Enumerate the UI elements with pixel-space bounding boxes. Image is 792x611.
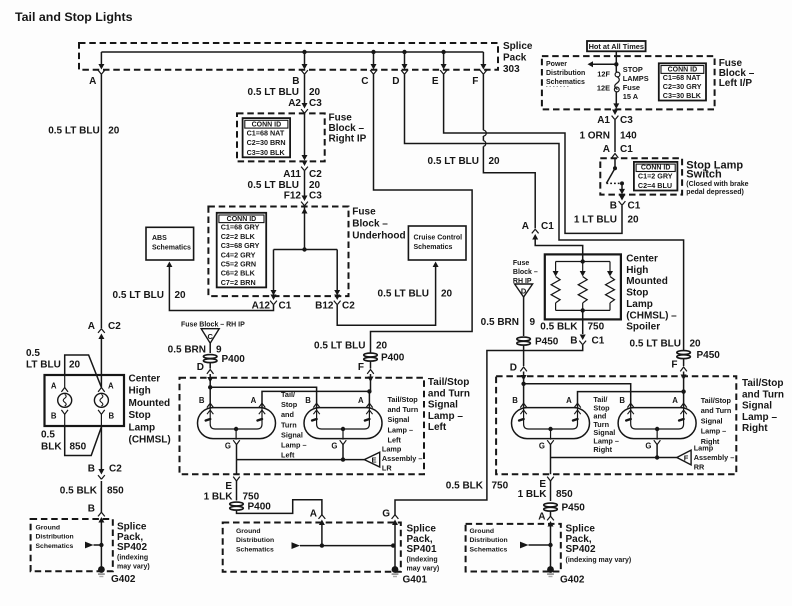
- svg-text:Mounted: Mounted: [129, 398, 171, 409]
- svg-text:E: E: [432, 76, 439, 87]
- ground G401: [392, 566, 399, 576]
- CHMSL spoiler lamp element x=555.6: [551, 262, 560, 311]
- wire A1 to stop lamp switch, 1 ORN 140: [614, 120, 616, 152]
- svg-text:CONN ID: CONN ID: [252, 121, 282, 128]
- svg-text:Signal: Signal: [388, 415, 410, 424]
- svg-text:E: E: [371, 456, 376, 465]
- svg-text:P400: P400: [381, 353, 405, 364]
- svg-text:Signal: Signal: [281, 430, 303, 439]
- junction dot underhood: [302, 247, 306, 251]
- CHMSL bulb right: [94, 393, 108, 407]
- svg-text:Right: Right: [593, 445, 612, 454]
- svg-text:and Turn: and Turn: [742, 389, 784, 400]
- hop over D wire: [483, 141, 485, 147]
- connector symbol A11: [301, 161, 308, 171]
- svg-text:Center: Center: [129, 374, 161, 385]
- connector P450 (lamp right D): [517, 337, 531, 345]
- svg-text:Block –: Block –: [352, 219, 388, 230]
- svg-text:Stop: Stop: [626, 288, 648, 299]
- svg-text:A: A: [51, 382, 57, 391]
- stop lamps fuse symbol: [614, 72, 620, 92]
- svg-text:G: G: [331, 442, 337, 451]
- svg-text:B: B: [292, 76, 299, 87]
- svg-text:Tail/Stop: Tail/Stop: [388, 395, 419, 404]
- svg-text:Fuse: Fuse: [329, 113, 353, 124]
- svg-text:Left I/P: Left I/P: [719, 78, 753, 89]
- lamp left D junction and feeds: [208, 385, 212, 389]
- svg-text:C1: C1: [628, 201, 641, 212]
- splice pack 303 output E arrow: [440, 64, 447, 74]
- svg-text:Block –: Block –: [513, 269, 538, 276]
- splice pack 303 output C wire: [373, 52, 375, 64]
- svg-text:15 A: 15 A: [623, 92, 639, 101]
- ground distribution arrow (SP402 left): [85, 542, 94, 549]
- svg-text:750: 750: [588, 322, 605, 333]
- svg-text:Lamp: Lamp: [626, 299, 653, 310]
- splice pack SP401 box: [223, 523, 401, 572]
- svg-text:Switch: Switch: [686, 169, 722, 181]
- connector symbol B12: [334, 295, 341, 305]
- svg-text:(indexing: (indexing: [117, 555, 148, 562]
- svg-text:BLK: BLK: [41, 442, 62, 453]
- svg-text:C1: C1: [620, 144, 633, 155]
- svg-text:SP402: SP402: [117, 542, 147, 553]
- tail stop turn text (right inner 2): [701, 396, 732, 446]
- wire D from splice to lamp right F: [405, 74, 684, 350]
- svg-text:Fuse Block – RH IP: Fuse Block – RH IP: [181, 322, 245, 329]
- svg-text:Distribution: Distribution: [236, 537, 274, 544]
- lamp left ground output wire: [236, 460, 238, 475]
- svg-text:High: High: [129, 386, 151, 397]
- svg-text:Distribution: Distribution: [546, 70, 585, 77]
- svg-text:A1: A1: [597, 115, 610, 126]
- junction dots on bus: [302, 50, 306, 54]
- spoiler ground run to SP401 G: [395, 345, 583, 516]
- svg-text:A: A: [566, 396, 572, 405]
- tail/stop lamp left bulb pair 1: [198, 408, 276, 440]
- ground distribution arrow (SP402 right): [520, 542, 529, 549]
- svg-text:0.5 BLK: 0.5 BLK: [446, 481, 484, 492]
- svg-text:0.5 BLK: 0.5 BLK: [60, 486, 98, 497]
- tail stop lamp left outside label: [428, 377, 470, 433]
- wire triangle C to P400: [209, 343, 211, 353]
- hot at all times box: [587, 41, 646, 51]
- svg-text:Pack: Pack: [503, 53, 527, 64]
- switch entry chevron: [612, 154, 619, 158]
- svg-text:G401: G401: [403, 575, 428, 586]
- svg-text:20: 20: [376, 341, 388, 352]
- conn id table (switch): [634, 162, 678, 191]
- svg-text:20: 20: [489, 156, 501, 167]
- splice SP402 terminal B chevron: [98, 512, 105, 522]
- CHMSL bottom loop wire: [65, 426, 102, 456]
- svg-text:CONN ID: CONN ID: [641, 165, 671, 172]
- svg-text:A: A: [538, 512, 545, 523]
- connector C2 symbol on wire A: [98, 329, 105, 339]
- svg-text:C7=2 BRN: C7=2 BRN: [221, 278, 256, 287]
- cruise control schematics text: [414, 235, 463, 252]
- svg-text:D: D: [197, 362, 204, 373]
- splice pack 303 label: [503, 41, 533, 75]
- splice pack 303 output D wire: [404, 52, 406, 64]
- svg-text:Schematics: Schematics: [414, 244, 453, 251]
- conn id table (left IP): [659, 63, 706, 100]
- tail stop turn text (right inner): [593, 395, 619, 454]
- svg-text:G: G: [539, 442, 545, 451]
- svg-text:Left: Left: [281, 451, 295, 460]
- splice pack 303 output E wire: [443, 52, 445, 64]
- svg-text:(Indexing: (Indexing: [407, 557, 438, 564]
- svg-text:and: and: [281, 410, 294, 419]
- svg-text:Fuse: Fuse: [513, 260, 529, 267]
- stop lamps fuse text: [623, 65, 649, 101]
- svg-text:C3=68 GRY: C3=68 GRY: [221, 241, 260, 250]
- svg-text:LT BLU: LT BLU: [26, 360, 61, 371]
- svg-text:A: A: [358, 396, 364, 405]
- svg-text:B: B: [305, 396, 311, 405]
- lamp right D entry chevron: [520, 367, 527, 371]
- svg-text:Lamp: Lamp: [694, 444, 714, 453]
- connector symbol A/C1: [532, 229, 539, 239]
- svg-text:A: A: [89, 76, 96, 87]
- fuse block left IP label: [719, 58, 755, 89]
- svg-text:B12: B12: [315, 301, 334, 312]
- svg-text:Ground: Ground: [236, 528, 261, 535]
- svg-text:Fuse: Fuse: [352, 207, 376, 218]
- svg-text:Lamp –: Lamp –: [388, 425, 414, 434]
- wire A from splice to CHMSL: [100, 74, 102, 328]
- svg-text:B: B: [619, 396, 625, 405]
- svg-text:850: 850: [107, 486, 124, 497]
- lamp right D junction and feeds: [521, 382, 525, 386]
- svg-text:F: F: [684, 454, 689, 463]
- svg-text:Lamp: Lamp: [382, 445, 402, 454]
- svg-text:B: B: [109, 412, 115, 421]
- fuse block RH IP label (right): [513, 260, 538, 285]
- lamp assembly RR label: [694, 444, 735, 472]
- svg-text:P450: P450: [535, 337, 559, 348]
- wire B from splice down: [304, 74, 306, 105]
- switch output wire: [621, 183, 623, 190]
- CHMSL label: [129, 374, 171, 446]
- svg-text:Schematics: Schematics: [36, 543, 74, 550]
- splice pack SP402 right label: [566, 524, 596, 556]
- svg-text:C3: C3: [309, 98, 322, 109]
- svg-text:Assembly –: Assembly –: [382, 454, 423, 463]
- lamp right F entry chevron: [680, 367, 687, 371]
- fuse block RH IP triangle D: [515, 284, 533, 297]
- svg-text:Turn: Turn: [281, 420, 297, 429]
- connector P400 (lamp left F): [364, 353, 378, 361]
- wire F from splice to CHMSL spoiler: [482, 74, 484, 130]
- svg-text:F12: F12: [284, 190, 302, 201]
- svg-text:B: B: [199, 396, 205, 405]
- svg-text:C1: C1: [541, 221, 554, 232]
- tail stop turn text (left inner 2): [388, 395, 419, 444]
- svg-text:Tail/Stop: Tail/Stop: [701, 396, 732, 405]
- svg-text:9: 9: [530, 317, 536, 328]
- connector P400 (lamp left ground): [230, 502, 244, 510]
- svg-text:Tail/: Tail/: [281, 390, 295, 399]
- ground distribution schematics text (SP402 right): [470, 528, 508, 553]
- arrow into underhood: [302, 208, 308, 214]
- svg-text:Stop: Stop: [281, 400, 298, 409]
- svg-text:20: 20: [108, 126, 120, 137]
- connector symbol A2/C3: [301, 103, 308, 113]
- stop lamp switch box: [600, 158, 682, 194]
- svg-text:ABS: ABS: [152, 235, 167, 242]
- CHMSL spoiler output wire: [582, 310, 584, 334]
- svg-text:C1=68 NAT: C1=68 NAT: [663, 73, 701, 82]
- svg-text:B: B: [51, 412, 57, 421]
- svg-text:1 ORN: 1 ORN: [579, 131, 610, 142]
- svg-text:D: D: [392, 76, 399, 87]
- CHMSL spoiler label: [626, 254, 677, 333]
- connector P450 (lamp right ground): [544, 503, 558, 511]
- svg-text:P400: P400: [222, 354, 246, 365]
- svg-text:STOP: STOP: [623, 65, 643, 74]
- ABS schematics text: [152, 235, 191, 252]
- wire into underhood: [304, 207, 306, 250]
- svg-text:A2: A2: [288, 98, 301, 109]
- lamp assembly RR triangle F: [677, 450, 691, 465]
- CHMSL top loop wire: [65, 355, 102, 387]
- underhood internal bus: [274, 249, 338, 251]
- switch contacts and blade: [614, 158, 616, 168]
- svg-text:Tail/Stop: Tail/Stop: [428, 377, 469, 388]
- conn id table (right IP): [243, 118, 291, 157]
- svg-text:1 BLK: 1 BLK: [204, 492, 234, 503]
- splice pack 303 output B arrow: [301, 64, 308, 74]
- connector symbol A12: [270, 295, 277, 305]
- svg-text:Spoiler: Spoiler: [626, 322, 660, 333]
- svg-text:(CHMSL): (CHMSL): [129, 435, 171, 446]
- svg-text:0.5 BLK: 0.5 BLK: [540, 322, 578, 333]
- lamp left F entry chevron: [367, 370, 374, 374]
- svg-text:B: B: [88, 504, 95, 515]
- svg-text:D: D: [521, 287, 527, 296]
- splice pack 303 output C arrow: [370, 64, 377, 74]
- svg-text:may vary): may vary): [117, 564, 150, 571]
- svg-text:Center: Center: [626, 254, 658, 265]
- wire from hot at all times: [615, 51, 617, 72]
- svg-text:Mounted: Mounted: [626, 276, 668, 287]
- splice pack SP402 left box: [31, 519, 113, 571]
- splice pack SP402 right box: [466, 524, 561, 572]
- svg-text:140: 140: [620, 131, 637, 142]
- svg-text:C2=30 BRN: C2=30 BRN: [247, 138, 286, 147]
- svg-text:20: 20: [69, 360, 81, 371]
- svg-text:A: A: [88, 321, 95, 332]
- svg-text:Distribution: Distribution: [36, 534, 74, 541]
- connector P400 (lamp left D): [203, 355, 217, 363]
- wire fuse to A1: [615, 92, 617, 105]
- svg-text:A: A: [522, 221, 529, 232]
- splice pack 303 output F wire: [482, 52, 484, 64]
- svg-text:C6=2 BLK: C6=2 BLK: [221, 269, 256, 278]
- svg-text:and Turn: and Turn: [388, 405, 419, 414]
- lamp right G2 chevron: [654, 440, 661, 444]
- svg-text:Schematics: Schematics: [546, 79, 585, 86]
- ground distribution schematics text (SP401): [236, 528, 274, 553]
- stop lamp switch label: [686, 159, 743, 180]
- arrow at right IP bottom: [302, 155, 308, 161]
- ABS schematics box: [146, 227, 194, 260]
- wire P400 to SP401 A: [237, 500, 322, 516]
- svg-text:A: A: [603, 144, 610, 155]
- svg-text:Lamp –: Lamp –: [701, 427, 727, 436]
- svg-text:A: A: [310, 509, 317, 520]
- lamp left D entry chevron: [207, 370, 214, 374]
- svg-text:Left: Left: [388, 435, 402, 444]
- svg-text:C1=68 NAT: C1=68 NAT: [247, 129, 285, 138]
- svg-text:Schematics: Schematics: [152, 245, 191, 252]
- svg-text:Schematics: Schematics: [470, 546, 508, 553]
- svg-text:Right IP: Right IP: [329, 134, 367, 145]
- svg-text:Assembly –: Assembly –: [694, 453, 735, 462]
- lamp right F junction and feeds: [681, 389, 685, 393]
- svg-text:and Turn: and Turn: [701, 406, 732, 415]
- splice pack 303 output F arrow: [480, 64, 487, 74]
- svg-text:G402: G402: [560, 575, 585, 586]
- svg-text:G: G: [645, 442, 651, 451]
- svg-text:20: 20: [309, 87, 321, 98]
- svg-text:C1=68 GRY: C1=68 GRY: [221, 223, 260, 232]
- splice pack 303 output B wire: [304, 52, 306, 64]
- svg-text:C3: C3: [309, 190, 322, 201]
- wire triangle D to P450: [523, 297, 525, 336]
- svg-text:High: High: [626, 265, 648, 276]
- svg-text:P450: P450: [697, 350, 721, 361]
- arrow into cruise box: [433, 262, 439, 268]
- splice pack 303 bus wire: [101, 51, 483, 53]
- svg-text:SP402: SP402: [566, 544, 596, 555]
- svg-text:20: 20: [441, 289, 453, 300]
- svg-text:Fuse: Fuse: [623, 83, 640, 92]
- svg-text:A: A: [251, 396, 257, 405]
- svg-text:20: 20: [175, 290, 187, 301]
- svg-text:850: 850: [556, 489, 573, 500]
- svg-text:(indexing may vary): (indexing may vary): [566, 557, 632, 564]
- svg-text:C3=30 BLK: C3=30 BLK: [663, 91, 702, 100]
- lamp left ground bus: [237, 459, 365, 461]
- fuse block RH IP triangle C: [201, 329, 219, 344]
- svg-text:Lamp –: Lamp –: [281, 441, 307, 450]
- svg-text:Lamp –: Lamp –: [428, 411, 463, 422]
- svg-text:C2: C2: [108, 321, 121, 332]
- svg-text:C2=4 BLU: C2=4 BLU: [638, 181, 672, 190]
- svg-text:RR: RR: [694, 462, 705, 471]
- ground distribution schematics text (SP402 left): [36, 525, 74, 550]
- lamp left F junction and feeds: [367, 389, 371, 393]
- tail/stop lamp right bulb pair 1: [512, 408, 590, 440]
- svg-text:C1: C1: [279, 301, 292, 312]
- svg-text:Underhood: Underhood: [352, 231, 405, 242]
- junction dots (SP401): [320, 543, 324, 547]
- conn id table (underhood): [217, 213, 267, 288]
- svg-text:Left: Left: [428, 422, 447, 433]
- connector symbol B/C1 (switch): [619, 195, 626, 205]
- svg-text:C1: C1: [592, 336, 605, 347]
- svg-text:750: 750: [492, 481, 509, 492]
- svg-text:Power: Power: [546, 61, 567, 68]
- svg-text:D: D: [510, 363, 517, 374]
- wire 1 LT BLU 20 from switch: [621, 206, 623, 225]
- fuse block underhood label: [352, 207, 405, 242]
- svg-text:G402: G402: [111, 574, 136, 585]
- svg-text:Right: Right: [742, 423, 768, 434]
- svg-text:Splice: Splice: [503, 41, 533, 52]
- junction dot (SP402 right): [548, 543, 552, 547]
- hop over E wire: [483, 130, 486, 136]
- svg-text:Distribution: Distribution: [470, 537, 508, 544]
- svg-text:20: 20: [690, 339, 702, 350]
- SP402 right terminal A chevron: [547, 516, 554, 526]
- tail/stop lamp right bulb pair 2: [618, 408, 696, 440]
- svg-text:Hot at All Times: Hot at All Times: [589, 42, 644, 51]
- svg-text:Signal: Signal: [701, 416, 723, 425]
- svg-text:E: E: [225, 481, 232, 492]
- svg-text:Ground: Ground: [36, 525, 61, 532]
- wire B from CHMSL down: [100, 426, 102, 471]
- lamp right ground output wire: [550, 458, 552, 475]
- connector symbol A1/C3: [612, 110, 619, 120]
- SP401 terminal G chevron: [392, 515, 399, 525]
- svg-text:0.5 LT BLU: 0.5 LT BLU: [314, 341, 365, 352]
- ground G402 left: [98, 566, 105, 576]
- svg-text:0.5 LT BLU: 0.5 LT BLU: [630, 339, 681, 350]
- svg-text:Cruise Control: Cruise Control: [414, 235, 463, 242]
- tail stop lamp right box: [496, 376, 736, 474]
- svg-text:B: B: [512, 396, 518, 405]
- lamp right ground bus: [551, 457, 677, 459]
- svg-text:Lamp –: Lamp –: [742, 412, 777, 423]
- tail stop lamp right outside label: [742, 378, 784, 434]
- svg-text:C2: C2: [342, 301, 355, 312]
- CHMSL bulb left: [58, 393, 72, 407]
- fuse block right IP label: [329, 113, 367, 145]
- splice pack SP401 label: [407, 524, 437, 556]
- connector C2 symbol (B): [98, 469, 105, 479]
- lamp assembly LR triangle E: [364, 452, 379, 467]
- svg-text:LAMPS: LAMPS: [623, 74, 649, 83]
- lamp right G1 chevron: [547, 440, 554, 444]
- tail stop lamp left box: [180, 378, 425, 475]
- svg-text:Tail/Stop: Tail/Stop: [742, 378, 783, 389]
- wire C from splice to lamp left F: [371, 74, 473, 352]
- svg-text:C2=2 BLK: C2=2 BLK: [221, 232, 256, 241]
- svg-text:0.5 LT BLU: 0.5 LT BLU: [428, 156, 479, 167]
- wire A11 to F12: [304, 171, 306, 197]
- connector symbol B/C1 (spoiler): [579, 335, 586, 345]
- ground distribution arrow (SP401): [292, 542, 301, 549]
- fuse block right IP box: [237, 113, 325, 161]
- splice pack 303 output A arrow: [98, 64, 105, 74]
- fuse block left IP box: [542, 56, 715, 109]
- CHMSL bulb A chevrons: [98, 388, 105, 392]
- connector P450 (lamp right F): [677, 351, 691, 359]
- splice pack 303 output A wire: [100, 52, 102, 64]
- underhood branch A12 wire: [273, 250, 275, 292]
- svg-text:B: B: [610, 201, 617, 212]
- svg-text:A: A: [108, 382, 114, 391]
- svg-text:G: G: [382, 509, 390, 520]
- svg-text:12F: 12F: [597, 70, 610, 79]
- cruise control schematics box: [408, 226, 466, 260]
- lamp left G1 chevron: [233, 440, 240, 444]
- svg-text:Schematics: Schematics: [236, 546, 274, 553]
- svg-text:0.5 BRN: 0.5 BRN: [168, 344, 206, 355]
